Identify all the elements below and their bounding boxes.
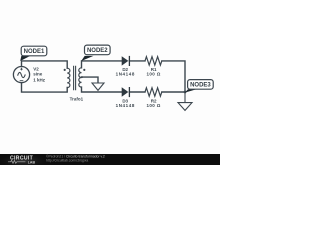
svg-text:NODE3: NODE3 bbox=[190, 82, 211, 88]
svg-text:Trafo1: Trafo1 bbox=[70, 97, 84, 102]
svg-text:100 Ω: 100 Ω bbox=[147, 72, 161, 77]
junction dot center tap bbox=[81, 76, 83, 78]
wire secondary bottom rail to D3 bbox=[82, 87, 122, 92]
svg-text:sine: sine bbox=[33, 72, 43, 77]
footer bar bbox=[0, 154, 220, 165]
node NODE1 label bbox=[21, 46, 47, 56]
svg-text:1N4148: 1N4148 bbox=[116, 103, 135, 108]
transformer Trafo1 bbox=[67, 66, 81, 90]
ground node3 bbox=[178, 92, 192, 110]
wire secondary top rail to D2 bbox=[82, 61, 122, 68]
resistor R2 bbox=[145, 88, 162, 96]
node NODE1 flag bbox=[20, 56, 30, 61]
wire primary top rail bbox=[22, 61, 68, 68]
primary winding bbox=[67, 68, 70, 87]
footer logo zigzag bbox=[8, 160, 25, 163]
svg-text:NODE1: NODE1 bbox=[24, 49, 45, 55]
voltage source V2 bbox=[13, 67, 29, 83]
resistor R1 bbox=[145, 57, 162, 65]
svg-text:NODE2: NODE2 bbox=[87, 48, 108, 54]
wire secondary center tap bbox=[82, 77, 98, 83]
footer attribution bbox=[46, 154, 105, 162]
label R2 bbox=[147, 98, 161, 108]
wire primary bottom rail bbox=[22, 83, 68, 92]
junction node3 dot bbox=[184, 91, 187, 94]
svg-text:LAB: LAB bbox=[28, 160, 36, 164]
node NODE3 flag bbox=[185, 89, 197, 92]
wire D2 cathode to R1 bbox=[129, 60, 145, 62]
svg-text:http://circuitlab.com/c6rqpxa: http://circuitlab.com/c6rqpxa bbox=[46, 158, 88, 162]
label V2 values bbox=[33, 66, 46, 82]
svg-text:1 kHz: 1 kHz bbox=[33, 77, 46, 82]
node NODE2 flag bbox=[81, 56, 93, 61]
diode D2 bbox=[122, 56, 130, 66]
wire D3 cathode to R2 bbox=[129, 91, 145, 93]
wire R1 to node3 vertical bbox=[162, 61, 185, 92]
secondary winding bbox=[79, 68, 82, 87]
footer logo CircuitLab bbox=[10, 155, 35, 164]
diode D3 bbox=[122, 87, 130, 97]
svg-text:V2: V2 bbox=[33, 66, 39, 71]
secondary phase dot bbox=[83, 69, 85, 71]
wire R2 to node3 bbox=[162, 91, 185, 93]
node NODE2 label bbox=[85, 45, 111, 55]
core lines bbox=[74, 66, 76, 90]
primary phase dot bbox=[64, 69, 66, 71]
svg-text:1N4148: 1N4148 bbox=[116, 72, 135, 77]
label D2 bbox=[116, 67, 135, 77]
node NODE3 label bbox=[188, 80, 214, 90]
ground center tap bbox=[92, 83, 104, 90]
svg-text:100 Ω: 100 Ω bbox=[147, 103, 161, 108]
label R1 bbox=[147, 67, 161, 77]
label D3 bbox=[116, 98, 135, 108]
